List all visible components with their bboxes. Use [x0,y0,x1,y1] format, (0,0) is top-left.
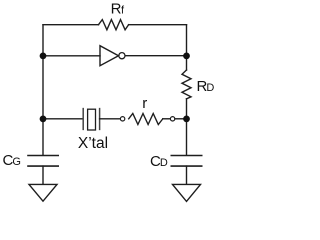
wire r to terminal [163,118,171,120]
svg-text:X’tal: X’tal [78,135,108,152]
op-amp U1 inverter triangle [100,46,119,66]
wire CG to ground [42,166,44,184]
capacitor CD top plate [171,155,201,157]
node junction crystal right [183,116,190,123]
capacitor X'tal crystal left plate [82,109,84,130]
svg-text:RD: RD [197,78,215,95]
svg-text:CG: CG [3,152,21,169]
wire inverter output [125,55,186,57]
node terminal left of r [120,117,124,121]
wire top-left segment [43,24,99,26]
wire inverter input [43,55,100,57]
capacitor CD bottom plate [171,165,201,167]
wire terminal to right rail [175,118,187,120]
capacitor CG top plate [28,155,58,157]
resistor Rf [99,20,129,30]
wire right rail lower [186,99,188,155]
ground left [29,184,57,201]
wire crystal to terminal [100,118,121,120]
svg-text:CD: CD [150,153,168,170]
capacitor X'tal crystal right plate [99,109,101,130]
wire CD to ground [186,166,188,184]
ground right [173,184,201,201]
resistor RD [182,70,191,99]
wire left rail [42,25,44,155]
wire crystal left [43,118,83,120]
resistor r [129,114,163,125]
op-amp U1 inverter bubble [119,53,125,59]
capacitor X'tal crystal body [88,109,96,130]
node junction crystal left [40,116,47,123]
svg-text:r: r [142,95,147,112]
node terminal right of r [170,117,174,121]
node junction inverter input [40,53,47,60]
wire right rail upper [186,25,188,70]
wire top-right segment [129,24,187,26]
svg-text:Rf: Rf [111,0,125,17]
capacitor CG bottom plate [28,165,58,167]
node junction inverter output [183,53,190,60]
